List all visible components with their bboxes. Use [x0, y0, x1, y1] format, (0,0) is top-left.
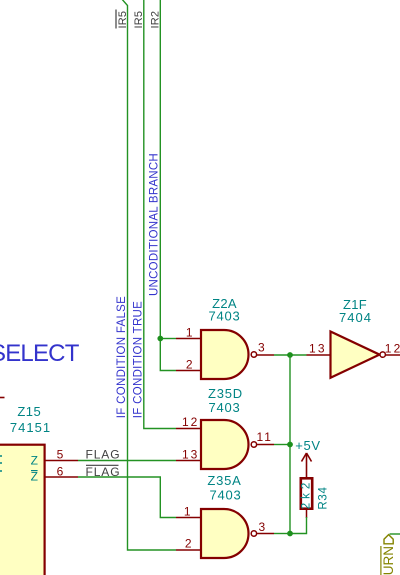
svg-text:7404: 7404	[339, 310, 372, 325]
svg-text:2: 2	[185, 537, 192, 551]
power symbol +5V	[302, 453, 312, 478]
svg-text:FLAG: FLAG	[86, 465, 121, 479]
label IR5-bar (overline) on first wire	[116, 10, 129, 29]
svg-text:1: 1	[186, 326, 193, 340]
hierarchical label TURN (cut off at bottom)	[381, 535, 396, 575]
svg-text:Z35A: Z35A	[207, 473, 241, 488]
svg-text:74151: 74151	[10, 420, 51, 435]
svg-text:SELECT: SELECT	[0, 340, 80, 367]
wire to hierarchical label	[390, 533, 400, 535]
svg-text:2k2: 2k2	[301, 479, 313, 510]
svg-text:Z: Z	[31, 470, 38, 484]
junction at Z35A output net	[287, 531, 293, 537]
svg-text:IR5: IR5	[133, 11, 145, 29]
inverter Z1F body	[331, 332, 386, 378]
svg-text:IF CONDITION TRUE: IF CONDITION TRUE	[133, 301, 145, 418]
label FLAG-bar (overline)	[86, 465, 121, 479]
pin 5 of Z15 with name Z	[31, 448, 78, 468]
wire from Z35A output to junction	[274, 533, 290, 535]
svg-text:Z15: Z15	[17, 404, 41, 419]
svg-text:Z35D: Z35D	[208, 386, 243, 401]
svg-text:+5V: +5V	[295, 438, 320, 453]
cut-off pin name marks at left edge of Z15	[0, 456, 2, 471]
wire net IR5 vertical from top to Z35D pin 12	[144, 0, 176, 429]
svg-text:FLAG: FLAG	[86, 448, 121, 462]
wire from Z2A output to Z1F input	[274, 354, 307, 356]
svg-text:13: 13	[182, 448, 199, 462]
wire net /IR5 vertical from top to Z35A pin 2	[122, 0, 176, 550]
svg-text:5: 5	[57, 448, 64, 462]
svg-text:TURN: TURN	[381, 546, 396, 575]
svg-text:7403: 7403	[208, 400, 240, 415]
svg-text:12: 12	[385, 342, 400, 356]
svg-text:7403: 7403	[208, 309, 240, 324]
wire net IR2 vertical from top to Z2A inputs	[160, 0, 176, 371]
svg-text:11: 11	[257, 430, 273, 444]
component Z15 74151 box (cut off at left)	[0, 445, 45, 575]
junction at Z2A output net	[287, 352, 293, 358]
stray pin tip at left edge	[0, 397, 5, 399]
pin 3 of Z2A (output)	[257, 341, 274, 356]
svg-text:6: 6	[57, 465, 64, 479]
nand gate Z2A body	[201, 330, 257, 379]
pin 2 of Z2A	[176, 358, 201, 372]
nand gate Z35D body	[201, 420, 257, 469]
svg-text:IF CONDITION FALSE: IF CONDITION FALSE	[116, 296, 128, 418]
pin 1 of Z35A	[176, 505, 201, 519]
pin 13 of Z35D	[176, 448, 201, 462]
svg-text:2: 2	[186, 358, 193, 372]
resistor R34 body	[301, 478, 312, 508]
svg-text:Z: Z	[31, 454, 38, 468]
svg-text:13: 13	[309, 342, 327, 356]
pin 3 of Z35A (output)	[257, 520, 274, 534]
nand gate Z35A body	[201, 509, 257, 558]
pin 13 of Z1F (input)	[307, 342, 331, 356]
wire from Z35D output to vertical bus	[274, 444, 290, 446]
pin 1 of Z2A	[176, 326, 201, 340]
pin 11 of Z35D (output)	[257, 430, 275, 445]
junction on IR2 wire at Z2A pin 1	[157, 336, 163, 342]
wire from R34 bottom to output bus junction	[290, 517, 307, 534]
svg-text:3: 3	[259, 520, 266, 534]
svg-text:R34: R34	[318, 486, 330, 509]
svg-text:IR5: IR5	[117, 11, 129, 29]
svg-text:3: 3	[258, 341, 265, 355]
wire branch to Z2A pin 1	[160, 338, 176, 340]
svg-text:IR2: IR2	[150, 11, 162, 29]
junction at Z35D output	[287, 442, 293, 448]
wire net /FLAG from Z15 pin 6 to Z35A pin 1	[78, 477, 176, 518]
svg-text:7403: 7403	[209, 488, 241, 503]
svg-text:12: 12	[182, 415, 199, 429]
wire vertical bus down from Z2A output junction	[289, 355, 291, 534]
pin 2 of Z35A	[176, 537, 201, 551]
pin bottom of R34	[306, 510, 308, 519]
svg-text:1: 1	[184, 505, 191, 519]
pin 12 of Z1F (output)	[385, 342, 400, 356]
pin 6 of Z15 with name Z-bar	[31, 465, 78, 484]
wire net FLAG from Z15 pin 5 to Z35D pin 13	[78, 460, 176, 462]
pin 12 of Z35D	[176, 415, 201, 429]
svg-text:UNCODITIONAL BRANCH: UNCODITIONAL BRANCH	[149, 153, 161, 296]
